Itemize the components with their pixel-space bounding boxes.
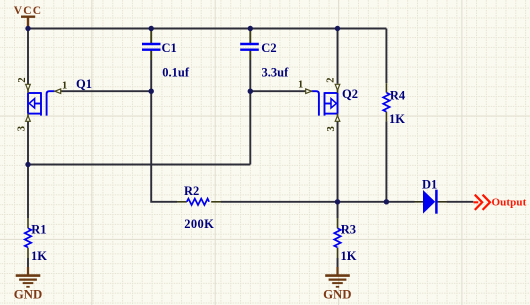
wire R4 node to D1 — [386, 201, 414, 203]
svg-text:R4: R4 — [390, 88, 406, 102]
wire Q1 source down — [27, 120, 29, 164]
wire horizontal net Q1 source to C2 bottom — [28, 164, 250, 166]
wire R3 bottom to ground — [337, 258, 339, 267]
svg-text:3: 3 — [17, 126, 28, 131]
svg-text:200K: 200K — [184, 217, 214, 231]
svg-text:R1: R1 — [31, 222, 46, 236]
svg-text:1K: 1K — [31, 249, 47, 263]
resistor R1 — [25, 218, 31, 258]
junction node C2 bottom / Q2 gate — [248, 89, 253, 94]
diode D1 — [415, 190, 448, 214]
junction C1 top on rail — [149, 26, 154, 31]
pin 3 of Q1 — [17, 114, 31, 132]
svg-text:2: 2 — [17, 77, 28, 82]
transistor Q2 — [312, 91, 338, 115]
junction Q2 drain on rail — [335, 26, 340, 31]
wire Q1 gate to C1 — [56, 90, 151, 92]
wire R2 right to R3 node — [221, 201, 338, 203]
svg-text:2: 2 — [325, 78, 336, 83]
capacitor C1 — [142, 29, 161, 61]
svg-text:GND: GND — [14, 288, 42, 302]
svg-text:1K: 1K — [341, 249, 357, 263]
ground symbol GND left — [14, 267, 42, 302]
wire C1 bottom vertical to R2 — [151, 60, 177, 202]
wire Q2 drain to rail — [337, 29, 339, 84]
wire Q2 source down to R3 — [337, 120, 339, 201]
wire R1 bottom to ground — [27, 258, 29, 267]
svg-text:Q2: Q2 — [342, 87, 358, 101]
transistor Q1 — [28, 91, 55, 115]
svg-text:0.1uf: 0.1uf — [162, 65, 190, 79]
pin 2 of Q1 — [17, 77, 30, 93]
resistor R4 — [383, 83, 389, 121]
resistor R2 — [177, 199, 221, 205]
wire VCC top rail — [28, 28, 386, 30]
svg-text:R3: R3 — [341, 222, 356, 236]
pin 2 of Q2 — [325, 78, 339, 93]
ground symbol GND right — [323, 267, 351, 302]
svg-text:C2: C2 — [261, 41, 276, 55]
junction node R3 top — [335, 199, 340, 204]
wire Q1 source to R1 — [27, 165, 29, 219]
junction node C1 bottom / Q1 gate — [149, 89, 154, 94]
junction node R4 bottom — [384, 199, 389, 204]
svg-text:1: 1 — [62, 81, 67, 92]
wire Q1 drain to rail — [27, 29, 29, 85]
wire Q2 gate from C2 node — [250, 90, 305, 92]
junction at VCC rail left — [25, 26, 30, 31]
wire R4 bottom — [385, 121, 387, 201]
wire rail corner down to R4 — [385, 29, 387, 84]
svg-text:Output: Output — [492, 196, 527, 208]
pin 1 of Q2 — [298, 80, 312, 94]
port Output — [474, 195, 527, 210]
wire D1 cathode to output port — [447, 201, 473, 203]
power symbol VCC — [14, 5, 43, 28]
capacitor C2 — [240, 29, 259, 61]
junction node Q1 source / R1 — [25, 162, 30, 167]
svg-text:D1: D1 — [422, 178, 437, 192]
svg-text:R2: R2 — [184, 184, 199, 198]
pin 1 of Q1 — [55, 81, 67, 94]
wire C2 bottom vertical — [249, 60, 251, 165]
wire R3 node to R4 node — [338, 201, 387, 203]
svg-text:C1: C1 — [162, 41, 177, 55]
svg-text:1: 1 — [298, 80, 303, 91]
svg-text:3.3uf: 3.3uf — [262, 65, 290, 79]
pin 3 of Q2 — [326, 114, 340, 132]
svg-text:3: 3 — [326, 126, 337, 131]
svg-text:GND: GND — [323, 288, 351, 302]
resistor R3 — [334, 218, 340, 258]
svg-text:1K: 1K — [389, 112, 405, 126]
junction C2 top on rail — [248, 26, 253, 31]
wire R3 node down — [337, 202, 339, 219]
svg-text:Q1: Q1 — [76, 77, 92, 91]
svg-text:VCC: VCC — [14, 5, 43, 17]
